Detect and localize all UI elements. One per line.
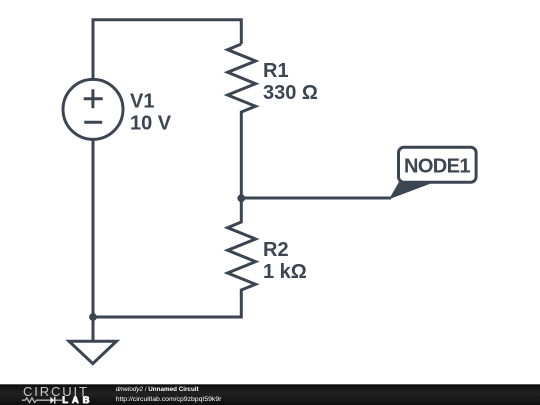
svg-text:LAB: LAB xyxy=(62,395,90,405)
svg-text:1 kΩ: 1 kΩ xyxy=(263,261,307,283)
svg-text:330 Ω: 330 Ω xyxy=(263,82,318,104)
svg-text:R1: R1 xyxy=(263,60,289,82)
svg-text:dmelody2 / Unnamed Circuit: dmelody2 / Unnamed Circuit xyxy=(116,386,200,393)
svg-text:10 V: 10 V xyxy=(130,113,172,135)
svg-text:http://circuitlab.com/cp9zbpqt: http://circuitlab.com/cp9zbpqt59k9r xyxy=(116,396,222,403)
svg-text:R2: R2 xyxy=(263,239,289,261)
svg-text:V1: V1 xyxy=(130,91,154,113)
svg-text:NODE1: NODE1 xyxy=(404,156,471,178)
